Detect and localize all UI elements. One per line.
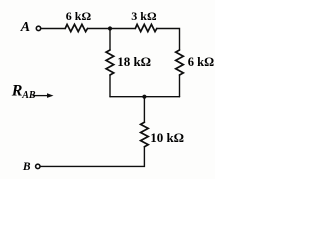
- svg-text:R: R: [11, 83, 23, 100]
- svg-text:AB: AB: [21, 90, 36, 101]
- svg-text:3 kΩ: 3 kΩ: [131, 9, 157, 23]
- svg-text:A: A: [20, 20, 30, 35]
- svg-text:B: B: [22, 161, 31, 173]
- svg-text:6 kΩ: 6 kΩ: [66, 9, 92, 23]
- svg-text:6 kΩ: 6 kΩ: [188, 55, 214, 69]
- svg-text:18 kΩ: 18 kΩ: [117, 54, 151, 69]
- svg-text:10 kΩ: 10 kΩ: [150, 130, 184, 145]
